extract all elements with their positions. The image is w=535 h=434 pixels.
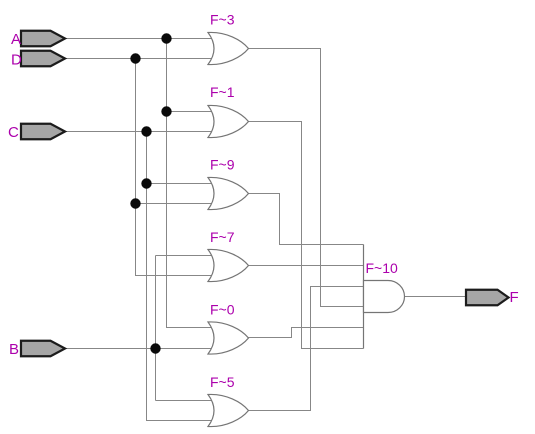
svg-text:F~10: F~10 bbox=[366, 260, 399, 276]
wire F~5 output to AND input 3 bbox=[248, 287, 364, 411]
junction A to F~1 top bbox=[161, 106, 171, 116]
or-gate F~1 bbox=[208, 105, 249, 137]
wire B to F~0 bottom input bbox=[65, 348, 213, 350]
and-gate F~10 body bbox=[364, 281, 405, 313]
wire A branch to F~1 top input bbox=[167, 111, 214, 113]
junction A branch bbox=[161, 33, 171, 43]
wire A to F~3 top input bbox=[65, 38, 213, 40]
wire F~10 output to pin F bbox=[405, 296, 467, 298]
input pin A bbox=[21, 31, 65, 47]
or-gate F~5 bbox=[208, 394, 249, 426]
wire vertical C branch x=146 down to F~5 bottom input bbox=[147, 132, 214, 421]
svg-text:C: C bbox=[8, 124, 19, 141]
svg-text:F~9: F~9 bbox=[210, 157, 235, 173]
wire D to F~3 bottom input bbox=[65, 58, 213, 60]
svg-text:F~7: F~7 bbox=[210, 229, 235, 245]
junction B branch bbox=[150, 343, 160, 353]
svg-text:F~5: F~5 bbox=[210, 374, 235, 390]
or-gate F~3 bbox=[208, 32, 249, 64]
or-gate F~0 bbox=[208, 322, 249, 354]
or-gate F~7 bbox=[208, 249, 249, 281]
junction D to F~9 bottom bbox=[130, 198, 140, 208]
input pin B bbox=[21, 341, 65, 357]
svg-text:F~1: F~1 bbox=[210, 84, 235, 100]
wire F~1 output to AND input 6 bbox=[248, 122, 364, 349]
wire vertical D branch x=135.5 down to F~7 bottom input bbox=[136, 59, 214, 276]
input pin C bbox=[21, 124, 65, 140]
wire B branch to F~5 top input bbox=[156, 400, 214, 402]
wire B branch to F~7 top input bbox=[156, 255, 214, 257]
wire vertical A branch x=166 down to F~0 top input bbox=[167, 39, 214, 328]
svg-text:F~0: F~0 bbox=[210, 302, 235, 318]
wire C branch to F~9 top input bbox=[147, 183, 214, 185]
and-gate F~10 input line bbox=[363, 245, 365, 349]
junction C to F~9 top bbox=[141, 178, 151, 188]
wire vertical B branch x=155.5 F~7 top to F~5 top bbox=[155, 256, 157, 401]
input pin D bbox=[21, 51, 65, 67]
wire F~7 output to AND input 2 bbox=[248, 265, 364, 267]
wire D branch to F~9 bottom input bbox=[136, 203, 214, 205]
or-gate F~9 bbox=[208, 177, 249, 209]
svg-text:B: B bbox=[9, 341, 19, 358]
wire F~9 output to AND input 1 bbox=[248, 194, 364, 245]
wire C to F~1 bottom input bbox=[65, 131, 213, 133]
svg-text:F~3: F~3 bbox=[210, 12, 235, 28]
svg-text:F: F bbox=[510, 289, 519, 306]
svg-text:D: D bbox=[11, 52, 22, 69]
wire F~0 output to AND input 5 bbox=[248, 328, 364, 338]
junction D branch bbox=[130, 53, 140, 63]
junction C branch bbox=[141, 126, 151, 136]
wire F~3 output to AND input 4 bbox=[248, 49, 364, 307]
output pin F bbox=[466, 290, 509, 306]
svg-text:A: A bbox=[11, 31, 21, 48]
